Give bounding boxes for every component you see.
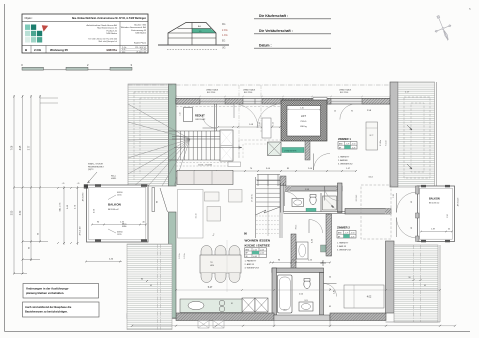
lift shaft walls — [281, 100, 327, 141]
zimmer1 door arc — [325, 187, 339, 201]
SW terrace floor — [127, 244, 172, 330]
svg-text:Änderungen in der Ausführungs-: Änderungen in der Ausführungs- — [26, 286, 69, 290]
reduit cupboard — [184, 108, 193, 122]
SE terrace wall band — [386, 241, 395, 313]
svg-text:LIFT: LIFT — [301, 115, 307, 118]
SE terrace dashdot lines — [413, 245, 415, 322]
svg-text:K1: K1 — [231, 303, 233, 305]
svg-text:3.50: 3.50 — [12, 210, 14, 215]
left dimension chain lines — [13, 95, 15, 274]
stair handrail — [172, 136, 220, 138]
svg-text:Postfach 41: Postfach 41 — [106, 29, 117, 32]
svg-text:AR 134.118: AR 134.118 — [79, 227, 82, 236]
shower room south wall — [284, 211, 346, 213]
bath door arc — [324, 284, 337, 297]
svg-text:Auch sind während der Bauphase: Auch sind während der Bauphase die — [25, 305, 72, 309]
terrace sill band SW — [127, 314, 176, 319]
kitchen counter — [177, 171, 233, 185]
bath north wall — [272, 268, 324, 273]
flight rail center — [267, 180, 269, 236]
corridor west wall hatched — [291, 234, 296, 272]
washer circles — [219, 300, 225, 306]
svg-text:8-1/2.45: 8-1/2.45 — [356, 195, 358, 202]
svg-text:65: 65 — [329, 306, 331, 308]
bath washbasin — [299, 302, 313, 311]
svg-text:BF/2.16m2: BF/2.16m2 — [196, 119, 207, 121]
svg-text:-0.13: -0.13 — [351, 233, 355, 235]
svg-text:80: 80 — [141, 279, 143, 281]
interior dim line y171 — [177, 170, 356, 172]
reduit door arc — [203, 115, 217, 129]
reduit dashed roof line — [176, 106, 280, 108]
dining chairs top — [201, 246, 212, 256]
wohnen info table — [245, 248, 267, 258]
zimmer2 bed — [344, 285, 384, 308]
svg-text:-0.25: -0.25 — [351, 236, 355, 238]
svg-text:BALKON: BALKON — [429, 198, 440, 201]
NE terrace dashed roof overhang — [404, 97, 430, 178]
flight break line — [256, 207, 281, 215]
svg-text:Zentrumsweg 45: Zentrumsweg 45 — [131, 29, 147, 32]
wardrobe — [297, 242, 309, 259]
svg-text:90: 90 — [411, 201, 413, 203]
svg-text:15/15: 15/15 — [117, 195, 122, 197]
svg-text:REDUIT: REDUIT — [195, 114, 205, 118]
svg-text:Bf 8.86 m2: Bf 8.86 m2 — [108, 209, 119, 211]
dining table — [200, 255, 241, 273]
title block bottom row — [30, 46, 32, 54]
svg-text:Max Musterstrasse 41: Max Musterstrasse 41 — [97, 27, 118, 30]
stair flight boundary — [169, 130, 221, 132]
stair dashed landing lines — [176, 163, 232, 167]
balcony dim line — [92, 224, 146, 226]
svg-text:54: 54 — [329, 277, 331, 279]
left chain tick row y273 — [14, 273, 27, 275]
svg-text:4.95: 4.95 — [20, 145, 22, 150]
zimmer1 info table — [338, 142, 357, 150]
svg-text:-1.25: -1.25 — [345, 233, 349, 235]
svg-text:15/15: 15/15 — [117, 234, 122, 236]
stair void hatched area — [128, 84, 169, 186]
right balcony parapet — [418, 186, 455, 242]
svg-text:SF: SF — [246, 256, 248, 258]
bottom dim line y290 — [176, 289, 440, 291]
svg-text:-1.25: -1.25 — [346, 144, 350, 146]
svg-text:+15: +15 — [77, 183, 80, 185]
shower room north wall — [285, 186, 342, 191]
entree dim line — [218, 126, 280, 128]
west wall band lower — [169, 212, 177, 318]
corridor east wall hatched — [326, 214, 332, 256]
bottom dim line — [132, 325, 455, 327]
chain connector y187 — [14, 187, 86, 189]
svg-text:WD.2-: WD.2- — [111, 176, 116, 178]
svg-text:90: 90 — [157, 201, 159, 203]
shower tray — [323, 196, 337, 210]
svg-text:BF: BF — [339, 147, 341, 149]
svg-text:2.50: 2.50 — [447, 214, 449, 218]
svg-text:-0.45: -0.45 — [253, 256, 257, 258]
landing cupboard — [220, 130, 233, 161]
left chain extension lines — [40, 97, 58, 99]
svg-text:BF: BF — [338, 236, 340, 238]
left chain tick row y241 — [23, 241, 49, 243]
vertical dim column near balcony — [63, 186, 65, 245]
svg-text:3. WEISSEN S2: 3. WEISSEN S2 — [338, 163, 353, 165]
svg-text:(S)/T3: (S)/T3 — [88, 169, 93, 171]
terrace tick labels — [146, 280, 148, 282]
svg-text:Käufer Pläne: Käufer Pläne — [134, 42, 147, 45]
steel column — [84, 184, 88, 188]
stair winder fan — [128, 104, 190, 139]
bathtub — [278, 275, 293, 313]
washbasin cabinet — [292, 199, 304, 207]
svg-text:1. PARKETT: 1. PARKETT — [338, 156, 350, 159]
svg-text:Dat.:: Dat.: — [122, 50, 126, 53]
svg-text:45: 45 — [424, 285, 426, 287]
svg-text:2.45: 2.45 — [334, 290, 336, 294]
svg-text:(TRAKT BALK: (TRAKT BALK — [206, 89, 219, 92]
svg-text:6-1.0a: 6-1.0a — [179, 253, 181, 258]
lower stair flight — [256, 179, 280, 181]
svg-text:5430 Baden: 5430 Baden — [135, 33, 146, 35]
sheet border bottom — [5, 331, 471, 333]
zimmer1 window arc — [340, 104, 356, 120]
svg-text:4.02: 4.02 — [367, 297, 372, 299]
window glazing lines — [200, 100, 225, 102]
ventilation shaft with X — [268, 142, 282, 156]
svg-text:95: 95 — [351, 111, 353, 113]
svg-text:2. ABRIEB: 2. ABRIEB — [338, 159, 348, 162]
logo squares — [25, 25, 30, 30]
SW terrace dashdot lines — [157, 244, 159, 330]
svg-text:-1.25: -1.25 — [253, 250, 257, 252]
teal strips near terrace — [388, 244, 394, 252]
extension verticals bottom — [273, 321, 275, 328]
shower partition — [320, 193, 322, 212]
svg-text:Mail: info@beispiel.ch: Mail: info@beispiel.ch — [99, 41, 117, 43]
bath X cabinets — [242, 298, 255, 312]
svg-text:MD.2-: MD.2- — [122, 224, 127, 226]
right balcony fixings — [421, 185, 426, 187]
entry door arc — [314, 154, 331, 171]
svg-text:DG: DG — [222, 24, 226, 26]
lower flight boundary — [255, 177, 257, 238]
teal strip shower wall — [306, 208, 316, 211]
svg-text:6-1.0a: 6-1.0a — [184, 253, 186, 258]
svg-text:HEM: HEM — [210, 265, 214, 267]
svg-text:21.04.17-05: 21.04.17-05 — [136, 51, 146, 53]
svg-text:ZIMMER 2: ZIMMER 2 — [337, 226, 350, 230]
svg-text:1.36: 1.36 — [393, 194, 395, 198]
zimmer2 info table — [337, 231, 356, 239]
svg-text:AR 84.448: AR 84.448 — [457, 198, 460, 207]
svg-text:LT WD 8/3 H/TR: LT WD 8/3 H/TR — [284, 150, 297, 152]
svg-text:3.77: 3.77 — [29, 145, 31, 150]
dim 2.40 — [86, 261, 122, 263]
SE terrace floor — [394, 245, 438, 322]
svg-text:Die Verkäuferschaft :: Die Verkäuferschaft : — [259, 29, 293, 33]
kitchen upper cupboard dashed — [228, 162, 241, 167]
svg-text:5.47: 5.47 — [208, 287, 213, 289]
section diagram dashed base — [167, 49, 217, 51]
svg-text:1. PARKETT: 1. PARKETT — [337, 242, 349, 245]
left chain tick row y187 — [13, 187, 15, 189]
svg-text:KÜCHE / ENTREE: KÜCHE / ENTREE — [245, 243, 270, 248]
svg-text:5430 Baden: 5430 Baden — [106, 33, 117, 35]
svg-text:Bauherr / BG: Bauherr / BG — [134, 25, 146, 27]
vanity counter — [180, 299, 242, 313]
svg-text:BALKON: BALKON — [108, 203, 121, 207]
svg-text:1600: 1600 — [283, 310, 287, 312]
svg-text:P65.5: P65.5 — [301, 121, 307, 123]
south wall dark hatch east — [330, 313, 386, 321]
shower room west wall — [280, 183, 282, 213]
svg-text:60: 60 — [448, 229, 450, 231]
svg-text:90: 90 — [411, 227, 413, 229]
svg-text:2.OG: 2.OG — [34, 48, 42, 52]
svg-text:3. WEISSPUTZ: 3. WEISSPUTZ — [337, 249, 352, 251]
svg-text:Min. 2.75: Min. 2.75 — [60, 202, 62, 211]
svg-text:UG: UG — [222, 48, 226, 50]
svg-text:630 kg: 630 kg — [300, 126, 307, 128]
svg-text:6-1.89a: 6-1.89a — [380, 140, 382, 146]
section diagram 2.OG highlight — [192, 29, 216, 34]
right balcony dim — [421, 231, 452, 233]
svg-text:Neu-Umbau MehrfamL Zentrumstra: Neu-Umbau MehrfamL Zentrumstrasse Nr. 87… — [72, 17, 147, 20]
wall corner at stair — [280, 176, 286, 186]
svg-text:BLF 2200: BLF 2200 — [340, 92, 348, 94]
vertical dashdot lines entree — [238, 85, 240, 158]
svg-text:AR 84.880: AR 84.880 — [82, 193, 85, 202]
stair direction line — [174, 147, 242, 149]
dining chairs bottom — [201, 273, 212, 283]
svg-text:2. ABR.33: 2. ABR.33 — [337, 245, 347, 248]
svg-text:1424: 1424 — [304, 300, 308, 302]
NE terrace hatched floor — [398, 82, 435, 187]
svg-text:1.39: 1.39 — [431, 229, 435, 231]
corridor dim row — [270, 262, 330, 264]
svg-text:6-1.59: 6-1.59 — [386, 140, 388, 145]
note box 1 — [23, 284, 99, 299]
entree french door arcs — [234, 104, 258, 128]
svg-text:ZIMMER 1: ZIMMER 1 — [338, 137, 351, 141]
balcony west parapet — [87, 185, 149, 242]
svg-text:H.BRL: H.BRL — [111, 178, 116, 180]
stair railing top — [257, 174, 280, 176]
wall below lift — [305, 141, 310, 160]
svg-text:Wohnbau Genossensch. AG: Wohnbau Genossensch. AG — [121, 26, 147, 29]
svg-text:20: 20 — [334, 111, 336, 113]
balcony corner fixings — [95, 184, 101, 187]
zimmer2 dashed roof rect — [361, 185, 391, 239]
svg-text:1.98: 1.98 — [259, 122, 261, 126]
svg-text:Bautoleranzen zu berücksichtig: Bautoleranzen zu berücksichtigen. — [25, 310, 68, 314]
top dash-dot reference line — [128, 84, 397, 86]
svg-text:BLF 2200: BLF 2200 — [244, 92, 252, 94]
zimmer1 bed — [366, 122, 378, 150]
reduit east wall — [214, 104, 216, 131]
svg-text:2. ABR.33: 2. ABR.33 — [245, 263, 255, 266]
top exterior wall with windows — [176, 99, 390, 105]
svg-text:planung bleiben vorbehalten.: planung bleiben vorbehalten. — [26, 291, 64, 295]
graphic scale bar — [22, 69, 132, 71]
shower room east wall — [338, 183, 343, 213]
below-wall X boxes — [198, 321, 209, 329]
south wall darken overlay — [176, 313, 274, 321]
living rug — [178, 190, 204, 239]
south wall light segment — [274, 315, 330, 321]
SE terrace ticks — [413, 279, 415, 281]
svg-text:45: 45 — [150, 285, 152, 287]
stair west wall band upper — [169, 84, 177, 186]
svg-text:(TRAKT BALK: (TRAKT BALK — [243, 89, 256, 92]
svg-text:90: 90 — [409, 277, 411, 279]
title block frame — [22, 14, 148, 53]
svg-text:7.06: 7.06 — [12, 145, 14, 150]
svg-text:BF: BF — [246, 253, 248, 255]
sofa table — [205, 192, 220, 201]
svg-text:BM/05a: BM/05a — [106, 48, 117, 52]
svg-text:-0.13: -0.13 — [260, 250, 264, 252]
svg-text:3.30: 3.30 — [20, 210, 22, 215]
svg-text:1.13: 1.13 — [273, 122, 275, 126]
svg-text:STAHL - STÜTZE: STAHL - STÜTZE — [88, 163, 104, 166]
section diagram ground line — [158, 44, 229, 46]
south wall dark hatch — [176, 313, 274, 321]
svg-text:2.OG: 2.OG — [222, 30, 228, 32]
north compass — [430, 13, 456, 44]
SE terrace bottom edge — [386, 321, 441, 323]
svg-text:Bf /2.83 m2: Bf /2.83 m2 — [429, 202, 440, 204]
corridor door arc upper — [309, 220, 323, 234]
bath toilet — [304, 279, 310, 288]
svg-text:1. PARKETT: 1. PARKETT — [245, 260, 257, 263]
shower door arc — [285, 192, 300, 207]
sheet border left — [4, 4, 6, 332]
entry cabinet — [262, 118, 271, 138]
svg-text:1/1.10: 1/1.10 — [196, 214, 198, 219]
svg-text:BLF 2200: BLF 2200 — [207, 92, 215, 94]
svg-text:Datum :: Datum : — [259, 44, 272, 48]
section diagram outline — [168, 23, 216, 45]
svg-text:17 1/2 St.: 17 1/2 St. — [251, 194, 254, 202]
right balcony wall strip — [416, 186, 420, 194]
lift front dim — [288, 109, 320, 111]
svg-text:Wohnung 05: Wohnung 05 — [50, 48, 68, 52]
stair void dashed roof lines — [134, 92, 168, 180]
svg-text:1.OG: 1.OG — [222, 35, 228, 37]
svg-text:L10: L10 — [180, 113, 182, 116]
note box 2 — [23, 302, 100, 317]
svg-text:BETT: BETT — [369, 135, 373, 137]
bath west wall — [272, 268, 277, 315]
svg-text:3. WEISSPUTZ: 3. WEISSPUTZ — [245, 268, 260, 270]
svg-text:-0.25: -0.25 — [260, 253, 264, 255]
svg-text:(TRAKT BALK: (TRAKT BALK — [339, 89, 352, 92]
svg-text:Objekt :: Objekt : — [25, 17, 34, 20]
svg-text:-0.13: -0.13 — [352, 144, 356, 146]
z1-z2 wall — [345, 209, 391, 215]
balcony door arcs — [397, 192, 418, 213]
entree dashed roof corners — [239, 140, 283, 158]
bath east wall — [320, 273, 324, 316]
svg-text:Architekturbüro Oberle Husner: Architekturbüro Oberle Husner AG — [87, 24, 118, 27]
logo triangle — [42, 25, 48, 31]
svg-text:WOHNEN /ESSEN: WOHNEN /ESSEN — [245, 239, 271, 243]
teal wall strip — [282, 148, 304, 153]
svg-text:86.15: 86.15 — [296, 225, 298, 230]
stair upper flight treads — [175, 131, 177, 160]
corridor plus mark — [320, 260, 326, 266]
toilet — [310, 195, 316, 204]
svg-text:+15: +15 — [62, 183, 65, 185]
svg-text:1.40: 1.40 — [300, 108, 304, 110]
top wall tick row — [176, 96, 390, 98]
svg-text:EG: EG — [222, 41, 226, 43]
BF1 label box — [313, 98, 327, 104]
svg-text:-0.25: -0.25 — [352, 147, 356, 149]
left chain tick row y259 — [23, 259, 41, 261]
tv sideboard — [207, 207, 221, 222]
left chain top arrows — [13, 96, 15, 98]
NE terrace wall band — [390, 82, 398, 187]
armchair — [229, 190, 243, 203]
svg-text:FEUERVERZINKT: FEUERVERZINKT — [88, 166, 105, 168]
NE terrace corner arrows — [407, 125, 412, 130]
svg-text:KBNL: KBNL — [122, 226, 127, 228]
svg-text:Die Käuferschaft :: Die Käuferschaft : — [259, 14, 288, 18]
vanity sink oval — [188, 301, 204, 309]
big window mid tick — [254, 99, 256, 105]
window light hatch overlay — [200, 99, 225, 105]
sliding balcony door — [152, 188, 155, 212]
